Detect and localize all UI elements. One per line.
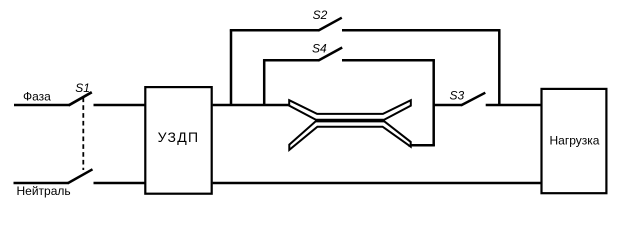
box UZDP — [145, 87, 211, 194]
svg-text:S2: S2 — [313, 8, 328, 22]
svg-text:S4: S4 — [312, 42, 327, 56]
switch S4 blade — [318, 48, 342, 61]
switch S1 pole 2 blade — [68, 169, 93, 183]
switch S2 blade — [318, 18, 342, 31]
wire UZDP output phase — [213, 104, 289, 107]
switch S1 pole 1 blade — [69, 92, 92, 105]
wire S1 to UZDP neutral — [94, 182, 146, 185]
wire neutral input left — [14, 182, 69, 185]
wire S2 branch left — [230, 29, 319, 32]
wire S4 branch left — [263, 59, 319, 62]
svg-text:Фаза: Фаза — [23, 90, 51, 104]
cable specimen lower conductor — [289, 121, 410, 149]
svg-text:S1: S1 — [75, 81, 90, 95]
wire right vertical S2 to phase — [498, 29, 501, 106]
wire S3 to load — [486, 104, 541, 107]
wire cable lower output — [408, 144, 435, 147]
wire S4 branch right — [342, 59, 435, 62]
wire S1 to UZDP phase — [94, 104, 146, 107]
wire node A vertical to S2 branch — [230, 29, 233, 106]
wire S2 branch right — [342, 29, 500, 32]
svg-text:Нейтраль: Нейтраль — [17, 184, 71, 198]
mechanical link dashed S1 — [82, 98, 84, 171]
wire neutral across — [213, 182, 541, 185]
svg-text:УЗДП: УЗДП — [158, 129, 200, 145]
svg-text:S3: S3 — [450, 89, 465, 103]
svg-text:Нагрузка: Нагрузка — [550, 133, 600, 147]
cable specimen upper conductor — [289, 100, 411, 120]
wire node B vertical to S4 branch — [263, 59, 266, 106]
wire right vertical S4 to cable — [432, 59, 435, 146]
box load Нагрузка — [542, 89, 607, 193]
switch S3 blade — [461, 93, 485, 106]
wire node C to S3 — [434, 104, 462, 107]
wire phase input left — [14, 104, 69, 107]
